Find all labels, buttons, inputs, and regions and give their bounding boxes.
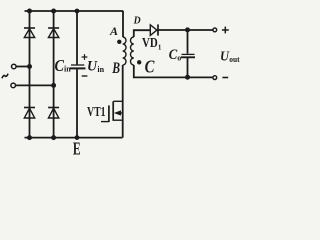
svg-text:1: 1 (158, 43, 162, 51)
terminal: AC neutral (11, 83, 16, 88)
wire: Co bottom column (187, 58, 189, 77)
wire: bridge column 1 (29, 11, 31, 138)
AC source tilde (2, 74, 8, 79)
node: Co junction dots (185, 27, 190, 32)
svg-text:A: A (109, 24, 118, 38)
wire: Cin column bottom (76, 69, 78, 137)
wire: anode-cathode link VD1 to Co (158, 29, 213, 31)
wire: secondary bottom lead (134, 65, 213, 77)
polarity dot secondary (137, 60, 141, 64)
svg-text:o: o (177, 54, 181, 63)
wire: primary drain line (122, 11, 124, 138)
terminal: output minus (213, 76, 217, 80)
svg-text:VT1: VT1 (87, 105, 106, 120)
bridge diode bottom-left (24, 108, 35, 119)
svg-text:in: in (97, 65, 104, 74)
svg-text:B: B (112, 60, 121, 77)
transformer T secondary winding (131, 37, 134, 65)
terminal: output plus (213, 28, 217, 32)
polarity dot primary (117, 40, 121, 44)
transformer T primary winding (123, 37, 126, 65)
bridge diode top-right (48, 28, 59, 38)
wire: Co top column (187, 30, 189, 54)
wire: AC live lead (16, 66, 29, 68)
transistor VT1 (101, 101, 123, 122)
wire: Cin column top (76, 11, 78, 65)
svg-text:C: C (145, 57, 155, 77)
minus sign Cin (82, 75, 88, 77)
wire: bottom rail (25, 137, 123, 139)
diode VD1 (150, 24, 158, 35)
wire: bridge column 2 (53, 11, 55, 138)
svg-text:D: D (133, 15, 141, 27)
plus sign output (222, 27, 229, 34)
bridge diode top-left (24, 28, 35, 38)
svg-text:out: out (229, 55, 240, 64)
terminal: AC live (12, 64, 17, 69)
minus sign output (222, 77, 228, 79)
wire: top rail (25, 10, 124, 12)
node: rail junction dots (27, 9, 79, 141)
capacitor Cin (70, 65, 86, 68)
svg-text:in: in (64, 65, 71, 74)
capacitor Co (181, 54, 195, 57)
wire: AC neutral lead (16, 84, 54, 86)
wire: secondary top lead (134, 30, 151, 37)
plus sign Cin (82, 54, 88, 60)
bridge diode bottom-right (48, 108, 59, 119)
svg-text:E: E (73, 138, 81, 158)
svg-text:VD: VD (142, 36, 158, 51)
